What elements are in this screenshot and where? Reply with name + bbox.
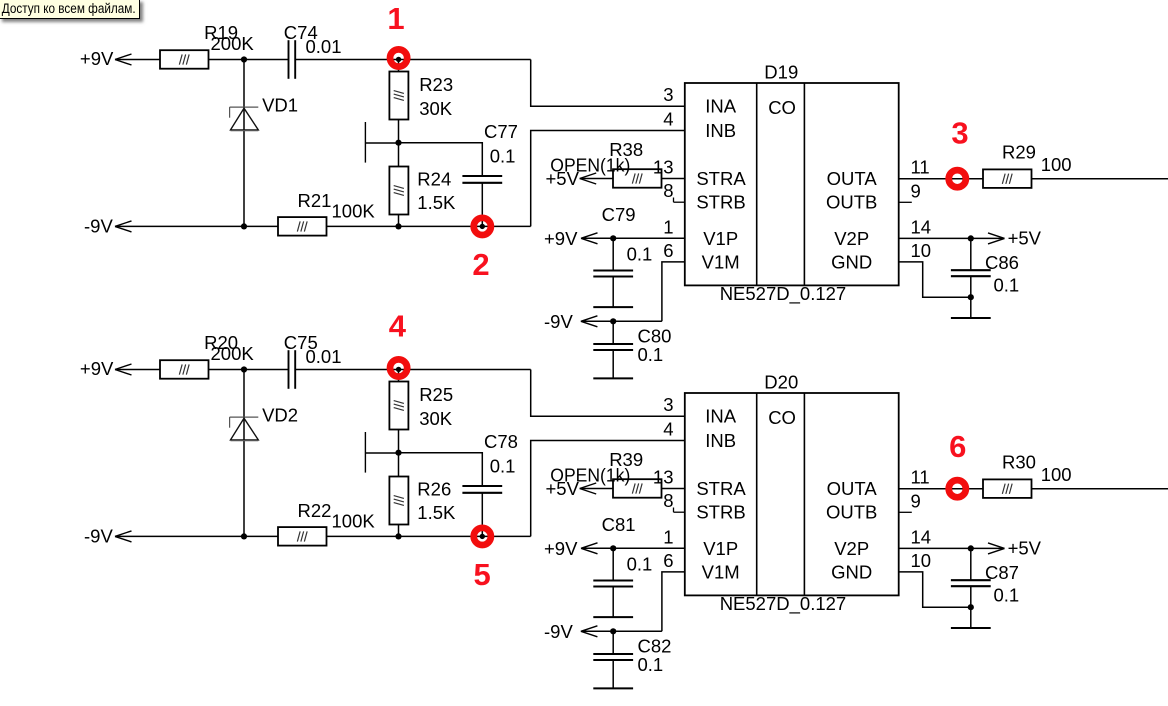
junction: [968, 294, 974, 300]
svg-text:14: 14: [911, 526, 932, 547]
svg-text:V1M: V1M: [702, 251, 740, 272]
resistor R38: [613, 169, 662, 188]
svg-text:8: 8: [663, 180, 673, 201]
wire: [398, 215, 400, 227]
svg-text:0.1: 0.1: [627, 244, 653, 265]
svg-text:D19: D19: [764, 61, 798, 82]
wire: [580, 178, 613, 180]
capacitor C74: [289, 40, 296, 79]
svg-text:0.1: 0.1: [994, 584, 1020, 605]
svg-text:11: 11: [911, 467, 930, 488]
pin 9 stub: [899, 201, 912, 203]
svg-text:+9V: +9V: [80, 48, 114, 69]
svg-text:0.1: 0.1: [627, 554, 653, 575]
wire: [531, 60, 685, 107]
svg-text:1: 1: [663, 216, 673, 237]
wire: [581, 630, 662, 632]
svg-text:R23: R23: [419, 74, 453, 95]
ground: [951, 627, 991, 629]
svg-text:0.1: 0.1: [638, 654, 664, 675]
wire: [662, 488, 685, 490]
wire: [662, 262, 685, 321]
svg-text:2: 2: [472, 247, 489, 282]
svg-text:14: 14: [911, 216, 932, 237]
wire: [899, 488, 983, 490]
pin 8 stub: [674, 508, 685, 513]
arrow +9V: [581, 233, 598, 244]
arrow +5V: [580, 483, 597, 494]
wire: [531, 370, 685, 417]
svg-text:C77: C77: [484, 121, 518, 142]
wire: [209, 369, 289, 371]
wire: [399, 143, 483, 176]
junction: [610, 545, 616, 551]
junction: [610, 235, 616, 241]
svg-text:0.01: 0.01: [306, 346, 342, 367]
svg-text:13: 13: [653, 157, 674, 178]
svg-text:OUTA: OUTA: [827, 478, 878, 499]
wire: [899, 547, 1005, 549]
svg-text:10: 10: [911, 550, 932, 571]
wire: [398, 370, 400, 382]
svg-text:INB: INB: [705, 120, 736, 141]
svg-text:CO: CO: [768, 97, 796, 118]
junction: [968, 235, 974, 241]
svg-text:-9V: -9V: [84, 216, 113, 237]
wire: [115, 59, 160, 61]
svg-text:0.1: 0.1: [490, 456, 516, 477]
probe marker 4: [390, 359, 407, 376]
wire: [243, 370, 245, 537]
svg-text:VD1: VD1: [262, 95, 298, 116]
wire: [612, 321, 614, 344]
wire: [970, 548, 972, 580]
wire: [612, 631, 614, 654]
svg-text:OUTA: OUTA: [827, 168, 878, 189]
svg-text:STRB: STRB: [696, 502, 745, 523]
probe marker 2: [474, 218, 491, 235]
arrow +9V: [115, 54, 132, 65]
test point probe: [365, 432, 398, 473]
junction: [241, 366, 247, 372]
junction: [610, 628, 616, 634]
svg-text:C86: C86: [985, 252, 1019, 273]
svg-text:OUTB: OUTB: [826, 502, 877, 523]
ground: [593, 687, 633, 689]
svg-text:1.5K: 1.5K: [417, 192, 456, 213]
test point probe: [365, 122, 398, 163]
wire: [481, 493, 483, 537]
probe marker 6: [949, 480, 966, 497]
resistor R21: [278, 217, 327, 236]
wire: [662, 178, 685, 180]
wire: [899, 262, 971, 297]
wire: [243, 60, 245, 227]
wire: [115, 369, 160, 371]
svg-text:9: 9: [911, 490, 921, 511]
svg-text:30K: 30K: [419, 98, 453, 119]
tooltip: [0, 0, 140, 19]
svg-text:-9V: -9V: [544, 311, 573, 332]
wire: [581, 547, 685, 549]
wire: [209, 59, 289, 61]
svg-text:+5V: +5V: [546, 478, 580, 499]
svg-text:R22: R22: [298, 500, 332, 521]
svg-text:+9V: +9V: [544, 228, 578, 249]
wire: [899, 178, 983, 180]
wire: [1032, 488, 1168, 490]
arrow -9V: [115, 221, 132, 232]
svg-text:13: 13: [653, 467, 674, 488]
svg-text:0.1: 0.1: [638, 344, 664, 365]
resistor R39: [613, 479, 662, 498]
svg-text:+9V: +9V: [544, 538, 578, 559]
wire: [295, 59, 531, 61]
svg-text:V1P: V1P: [703, 228, 738, 249]
capacitor C79: [593, 271, 633, 277]
svg-text:+5V: +5V: [1008, 538, 1042, 559]
resistor R23: [389, 72, 408, 120]
IC D20 NE527D: [685, 393, 899, 595]
ground: [593, 377, 633, 379]
junction: [480, 534, 485, 539]
svg-text:0.1: 0.1: [994, 274, 1020, 295]
svg-text:100K: 100K: [332, 200, 376, 221]
svg-text:3: 3: [951, 115, 968, 150]
svg-text:V1P: V1P: [703, 538, 738, 559]
svg-text:1: 1: [387, 1, 404, 36]
svg-text:+5V: +5V: [1008, 228, 1042, 249]
junction: [241, 533, 247, 539]
zener diode VD2: [230, 417, 259, 441]
svg-text:NE527D_0.127: NE527D_0.127: [720, 593, 847, 615]
arrow +5V: [580, 173, 597, 184]
svg-text:30K: 30K: [419, 408, 453, 429]
wire: [398, 525, 400, 537]
junction: [241, 56, 247, 62]
junction: [396, 57, 401, 62]
svg-text:1.5K: 1.5K: [417, 502, 456, 523]
svg-text:C81: C81: [602, 514, 636, 535]
ground: [593, 616, 633, 618]
resistor R25: [389, 382, 408, 430]
capacitor C81: [593, 581, 633, 587]
resistor R19: [160, 50, 209, 68]
capacitor C86: [951, 270, 991, 276]
svg-text:-9V: -9V: [544, 621, 573, 642]
arrow -9V: [115, 531, 132, 542]
wire: [970, 238, 972, 270]
junction: [395, 533, 401, 539]
junction: [241, 223, 247, 229]
ground: [593, 306, 633, 308]
resistor R20: [160, 360, 209, 379]
resistor R29: [983, 169, 1032, 188]
svg-text:STRA: STRA: [696, 478, 746, 499]
wire: [398, 430, 400, 477]
arrow -9V: [581, 626, 598, 637]
svg-text:C78: C78: [484, 431, 518, 452]
capacitor C77: [462, 176, 502, 183]
svg-text:6: 6: [663, 240, 673, 261]
arrow -9V: [581, 316, 598, 327]
svg-text:+5V: +5V: [546, 168, 580, 189]
svg-text:V2P: V2P: [834, 228, 869, 249]
svg-text:CO: CO: [768, 407, 796, 428]
resistor R24: [389, 167, 408, 215]
junction: [480, 224, 485, 229]
svg-text:100: 100: [1041, 154, 1072, 175]
pin 9 stub: [899, 511, 912, 513]
svg-text:NE527D_0.127: NE527D_0.127: [720, 283, 847, 305]
svg-text:4: 4: [663, 419, 673, 440]
svg-text:GND: GND: [831, 561, 872, 582]
capacitor C75: [289, 350, 296, 389]
svg-text:0.01: 0.01: [306, 36, 342, 57]
svg-text:INA: INA: [705, 96, 737, 117]
svg-text:R30: R30: [1002, 451, 1036, 472]
wire: [481, 183, 483, 227]
resistor R22: [278, 527, 327, 546]
svg-text:100K: 100K: [332, 510, 376, 531]
wire: [612, 277, 614, 308]
svg-text:R26: R26: [417, 478, 451, 499]
svg-text:11: 11: [911, 157, 930, 178]
wire: [531, 131, 685, 227]
svg-text:C79: C79: [602, 204, 636, 225]
svg-text:100: 100: [1041, 464, 1072, 485]
junction: [968, 545, 974, 551]
wire: [1032, 178, 1168, 180]
wire: [115, 225, 278, 227]
wire: [970, 586, 972, 628]
wire: [970, 276, 972, 318]
svg-text:0.1: 0.1: [490, 146, 516, 167]
svg-text:STRA: STRA: [696, 168, 746, 189]
probe marker 3: [949, 170, 966, 187]
arrow +5V: [988, 543, 1005, 554]
capacitor C80: [593, 344, 633, 350]
svg-text:6: 6: [949, 429, 966, 464]
svg-text:+9V: +9V: [80, 358, 114, 379]
svg-text:10: 10: [911, 240, 932, 261]
svg-text:INB: INB: [705, 430, 736, 451]
wire: [612, 548, 614, 580]
capacitor C78: [462, 486, 502, 493]
svg-text:D20: D20: [764, 371, 798, 392]
arrow +5V: [988, 233, 1005, 244]
wire: [295, 369, 531, 371]
capacitor C87: [951, 580, 991, 586]
wire: [327, 225, 531, 227]
wire: [531, 441, 685, 537]
resistor R30: [983, 479, 1032, 498]
wire: [399, 453, 483, 486]
wire: [580, 488, 613, 490]
wire: [612, 587, 614, 618]
arrow +9V: [581, 543, 598, 554]
svg-text:R29: R29: [1002, 141, 1036, 162]
svg-text:VD2: VD2: [262, 405, 298, 426]
capacitor C82: [593, 654, 633, 660]
arrow +9V: [115, 364, 132, 375]
wire: [398, 120, 400, 167]
svg-text:4: 4: [663, 109, 673, 130]
svg-text:9: 9: [911, 180, 921, 201]
svg-text:200K: 200K: [211, 343, 255, 364]
svg-text:GND: GND: [831, 251, 872, 272]
wire: [581, 237, 685, 239]
svg-text:R25: R25: [419, 384, 453, 405]
junction: [395, 450, 401, 456]
wire: [115, 535, 278, 537]
wire: [327, 535, 531, 537]
pin 8 stub: [674, 198, 685, 203]
zener diode VD1: [230, 107, 259, 131]
resistor R26: [389, 477, 408, 525]
IC D19 NE527D: [685, 83, 899, 285]
wire: [612, 238, 614, 270]
svg-text:3: 3: [663, 394, 673, 415]
probe marker 1: [390, 49, 407, 66]
wire: [398, 60, 400, 72]
junction: [395, 140, 401, 146]
svg-text:5: 5: [473, 557, 490, 592]
wire: [662, 572, 685, 631]
svg-text:8: 8: [663, 490, 673, 511]
wire: [899, 572, 971, 607]
wire: [612, 660, 614, 688]
svg-text:V1M: V1M: [702, 561, 740, 582]
wire: [899, 237, 1005, 239]
svg-text:200K: 200K: [211, 33, 255, 54]
svg-text:V2P: V2P: [834, 538, 869, 559]
junction: [610, 318, 616, 324]
svg-text:6: 6: [663, 550, 673, 571]
svg-text:-9V: -9V: [84, 526, 113, 547]
svg-text:4: 4: [389, 309, 407, 344]
svg-text:STRB: STRB: [696, 192, 745, 213]
svg-text:3: 3: [663, 84, 673, 105]
junction: [395, 223, 401, 229]
svg-text:INA: INA: [705, 406, 737, 427]
svg-text:R24: R24: [417, 168, 451, 189]
wire: [581, 320, 662, 322]
junction: [968, 604, 974, 610]
junction: [396, 367, 401, 372]
svg-text:R21: R21: [298, 190, 332, 211]
probe marker 5: [474, 528, 491, 545]
ground: [951, 317, 991, 319]
svg-text:1: 1: [663, 526, 673, 547]
svg-text:OUTB: OUTB: [826, 192, 877, 213]
wire: [612, 350, 614, 378]
svg-text:C87: C87: [985, 562, 1019, 583]
